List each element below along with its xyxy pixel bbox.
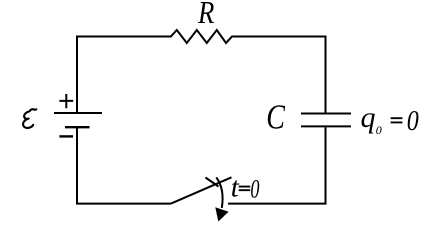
svg-text:q: q <box>361 101 376 134</box>
svg-text:0: 0 <box>250 174 259 203</box>
svg-text:0: 0 <box>407 105 419 136</box>
svg-text:R: R <box>197 0 214 31</box>
svg-text:t: t <box>231 172 240 204</box>
svg-text:0: 0 <box>376 123 382 137</box>
svg-text:C: C <box>266 98 285 137</box>
